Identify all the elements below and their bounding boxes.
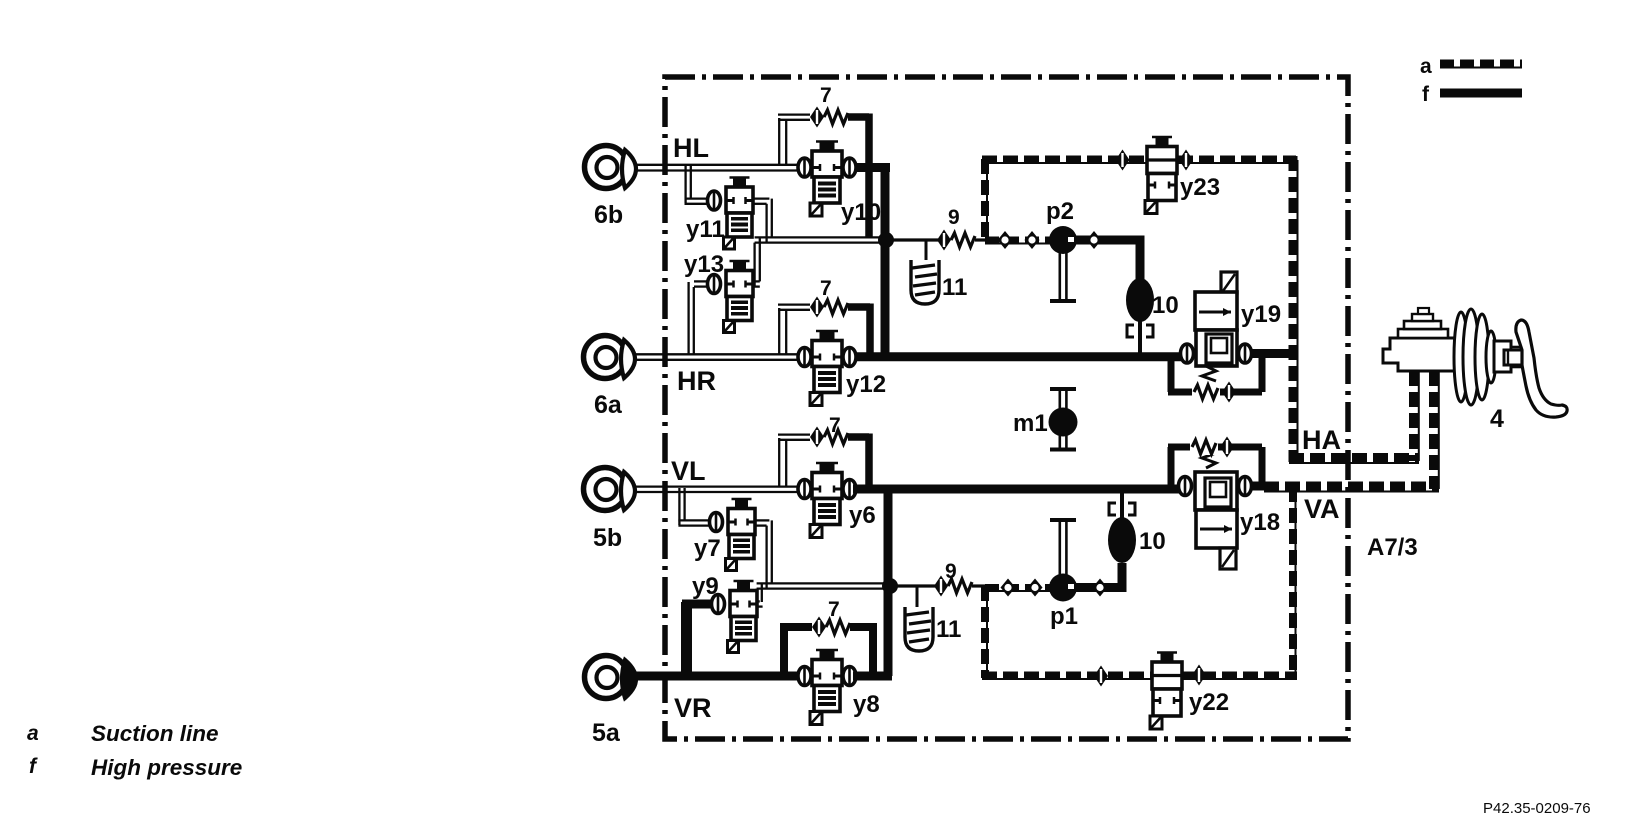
bypass restrictor 7 of y10 (778, 107, 869, 239)
wire y11 y13 return (753, 199, 886, 287)
pump shaft p2 (1050, 253, 1076, 301)
restrictor 9 lower (934, 576, 988, 597)
pump p1 (1049, 574, 1108, 602)
svg-text:5b: 5b (593, 524, 622, 552)
wheel 5a (585, 656, 637, 699)
svg-text:y23: y23 (1180, 174, 1220, 201)
svg-text:VA: VA (1304, 494, 1340, 524)
svg-text:y6: y6 (849, 502, 876, 529)
valve y11 (708, 177, 754, 249)
valve y10 (798, 141, 856, 216)
bypass restrictor 7 of y12 (778, 297, 870, 357)
wheel 6b (585, 146, 637, 189)
wire VR to y9 thick (682, 602, 712, 680)
suction line HA riser (1414, 371, 1419, 461)
bypass restrictor 7 of y6 (778, 427, 869, 489)
label y12 (846, 371, 886, 398)
damper 10 lower (1108, 493, 1136, 563)
svg-text:7: 7 (829, 414, 841, 437)
label 6b (594, 201, 623, 229)
legend text f high pressure (29, 755, 242, 780)
wire VL main thick (853, 485, 1180, 494)
label 7 of y10 (820, 84, 832, 107)
valve y23 (1116, 137, 1194, 214)
svg-text:y12: y12 (846, 371, 886, 398)
svg-text:y11: y11 (686, 216, 725, 243)
svg-text:f: f (1422, 83, 1430, 106)
svg-text:6b: 6b (594, 201, 623, 229)
svg-text:4: 4 (1490, 405, 1504, 433)
wire upper riser (878, 164, 894, 358)
svg-text:HA: HA (1302, 425, 1341, 455)
label 4 (1490, 405, 1504, 433)
svg-text:6a: 6a (594, 391, 623, 419)
label y6 (849, 502, 876, 529)
suction line to pump p1 (985, 579, 1052, 597)
bypass restrictor 7 of y8 (780, 617, 873, 677)
pump p2 (1049, 226, 1102, 254)
damper 10 upper (1126, 278, 1154, 353)
svg-text:Suction line: Suction line (91, 721, 219, 746)
master cylinder 4 (1383, 308, 1455, 371)
svg-text:5a: 5a (592, 719, 621, 747)
valve y22 (1094, 652, 1206, 729)
motor m1 (1049, 389, 1078, 450)
valve y18 (1179, 453, 1252, 569)
svg-text:HL: HL (673, 133, 709, 163)
label 11 lower (936, 616, 961, 643)
suction line VA horizontal (1264, 487, 1439, 492)
label y19 (1241, 301, 1281, 328)
label p2 (1046, 198, 1074, 225)
valve y7 (710, 499, 756, 571)
svg-text:11: 11 (936, 616, 961, 643)
label y23 (1180, 174, 1220, 201)
svg-text:A7/3: A7/3 (1367, 534, 1418, 561)
label HL (673, 133, 709, 163)
label VR (674, 693, 712, 723)
label 9 upper (948, 206, 960, 229)
wire y7 y9 return (755, 520, 890, 607)
label y11 (686, 216, 725, 243)
valve y9 (712, 581, 758, 653)
svg-text:y22: y22 (1189, 689, 1229, 716)
svg-text:10: 10 (1139, 528, 1166, 555)
wire p2 output thick (1072, 240, 1145, 281)
svg-text:9: 9 (945, 560, 957, 583)
wire HL double (634, 165, 798, 171)
label y10 (841, 199, 881, 226)
wire y18 output thick (1250, 482, 1268, 491)
svg-text:y13: y13 (684, 251, 724, 278)
suction line VA riser (1434, 371, 1439, 489)
wheel 5b (584, 468, 636, 511)
label VL (671, 456, 706, 486)
part number (1483, 800, 1591, 817)
label y9 (692, 573, 719, 600)
label 10 upper (1152, 292, 1179, 319)
booster 4 (1454, 309, 1521, 405)
wire HR double (634, 354, 799, 360)
label VA (1304, 494, 1340, 524)
label m1 (1013, 410, 1048, 437)
wire VL to y7 (678, 488, 710, 526)
label 5a (592, 719, 621, 747)
legend text a suction line (27, 721, 219, 746)
label y7 (694, 535, 721, 562)
suction box lower (982, 487, 1297, 679)
svg-text:7: 7 (828, 598, 840, 621)
legend f (1422, 83, 1522, 106)
label HR (677, 366, 716, 396)
svg-text:a: a (1420, 55, 1432, 78)
label 10 lower (1139, 528, 1166, 555)
svg-text:7: 7 (820, 84, 832, 107)
svg-text:y10: y10 (841, 199, 881, 226)
svg-text:7: 7 (820, 277, 832, 300)
label p1 (1050, 603, 1078, 630)
border box A7/3 (665, 77, 1348, 739)
wire HL to y11 (685, 166, 709, 204)
svg-text:P42.35-0209-76: P42.35-0209-76 (1483, 800, 1591, 817)
label 9 lower (945, 560, 957, 583)
svg-text:y9: y9 (692, 573, 719, 600)
label 7 of y8 (828, 598, 840, 621)
wire y8 output thick (853, 672, 892, 681)
wire HR main thick (856, 352, 1182, 361)
svg-text:VL: VL (671, 456, 706, 486)
bypass of y18 (1168, 437, 1262, 487)
svg-text:11: 11 (942, 274, 967, 301)
label HA (1302, 425, 1341, 455)
wire y13 to HR (689, 281, 708, 355)
valve y6 (798, 463, 856, 538)
svg-text:y19: y19 (1241, 301, 1281, 328)
suction line HA vertical (1293, 156, 1298, 462)
wheel 6a (584, 336, 636, 379)
label y13 (684, 251, 724, 278)
label y8 (853, 691, 880, 718)
pedal 4 (1504, 320, 1567, 417)
svg-text:9: 9 (948, 206, 960, 229)
label y22 (1189, 689, 1229, 716)
valve y8 (798, 650, 856, 725)
bypass of y19 (1168, 353, 1262, 403)
svg-text:m1: m1 (1013, 410, 1048, 437)
legend a (1420, 55, 1522, 78)
svg-text:HR: HR (677, 366, 716, 396)
svg-text:p1: p1 (1050, 603, 1078, 630)
wire lower riser (882, 485, 898, 676)
accumulator 11 upper (911, 240, 939, 304)
accumulator 11 lower (905, 586, 933, 651)
svg-text:High pressure: High pressure (91, 755, 242, 780)
suction line HA horizontal (1289, 458, 1419, 463)
svg-text:y18: y18 (1240, 509, 1280, 536)
svg-text:y7: y7 (694, 535, 721, 562)
wire y19 output thick (1250, 349, 1297, 358)
wire VR thick (631, 672, 800, 681)
svg-text:VR: VR (674, 693, 712, 723)
restrictor 9 upper (937, 230, 988, 251)
label y18 (1240, 509, 1280, 536)
wire junction to restrictor 9 upper (890, 238, 938, 241)
suction box upper (982, 159, 1296, 240)
suction line to pump p2 (985, 231, 1052, 249)
svg-text:y8: y8 (853, 691, 880, 718)
wire junction to restrictor 9 lower (894, 584, 935, 587)
valve y13 (708, 261, 754, 333)
label 11 upper (942, 274, 967, 301)
label 6a (594, 391, 623, 419)
wire y10 output thick (856, 163, 890, 172)
valve y12 (798, 331, 856, 406)
label 7 of y6 (829, 414, 841, 437)
label A7/3 (1367, 534, 1418, 561)
svg-text:10: 10 (1152, 292, 1179, 319)
pump shaft p1 (1050, 520, 1076, 575)
label 7 of y12 (820, 277, 832, 300)
valve y19 (1181, 272, 1252, 381)
wire p1 output thick (1072, 563, 1127, 590)
label 5b (593, 524, 622, 552)
svg-text:a: a (27, 722, 39, 745)
svg-text:p2: p2 (1046, 198, 1074, 225)
wire VL double (634, 487, 798, 492)
